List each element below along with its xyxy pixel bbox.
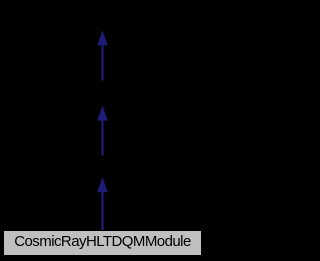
inheritance arrow Module -> PathElement (head) xyxy=(97,30,108,45)
inheritance arrow CosmicRayHLTDQMModule -> HistoModule (shaft wire) xyxy=(101,192,103,232)
label CosmicRayHLTDQMModule xyxy=(0,234,205,249)
node PathElement (base class, flattened to background) xyxy=(84,7,120,30)
node CosmicRayHLTDQMModule (current class, grey75 fill) xyxy=(3,230,202,256)
inheritance arrow Module -> PathElement (shaft wire) xyxy=(101,45,103,81)
node Module (intermediate base class, flattened to background) xyxy=(84,81,120,105)
inheritance arrow CosmicRayHLTDQMModule -> HistoModule (head) xyxy=(97,177,108,192)
inheritance arrow HistoModule -> Module (shaft wire) xyxy=(101,120,103,156)
node HistoModule (direct base class, flattened to background) xyxy=(84,156,120,177)
inheritance arrow HistoModule -> Module (head) xyxy=(97,106,108,121)
